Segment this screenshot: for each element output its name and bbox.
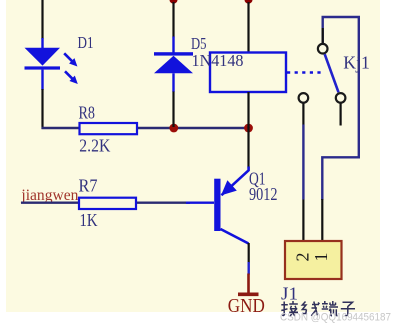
- transistor Q1: [214, 167, 248, 244]
- junction dot at D5 branch: [169, 124, 178, 133]
- switch common contact circle: [318, 44, 328, 54]
- label R8: [79, 103, 96, 123]
- ground: [238, 274, 259, 295]
- top edge junction stub of relay branch: [245, 0, 253, 4]
- stub below lower-right contact: [340, 104, 342, 126]
- wire base row: [21, 201, 214, 203]
- wire relay coil to junction: [247, 92, 249, 128]
- net label jiangwen: [20, 187, 78, 204]
- svg-text:jiangwen: jiangwen: [20, 187, 78, 204]
- resistor R8: [80, 123, 138, 134]
- pin number 1: [311, 253, 331, 262]
- char xian: [302, 302, 320, 316]
- dashed actuation link: [287, 71, 323, 73]
- wire top to diode D5: [172, 2, 174, 38]
- svg-text:D1: D1: [78, 33, 94, 52]
- svg-text:Kj1: Kj1: [343, 53, 370, 73]
- svg-text:J1: J1: [281, 283, 298, 303]
- label 9012: [249, 184, 278, 204]
- wire top to relay coil: [247, 2, 249, 53]
- label 1N4148: [192, 51, 244, 70]
- pin number 2: [293, 253, 313, 262]
- label terminal block (Chinese): [281, 301, 355, 316]
- label 1K: [80, 210, 98, 230]
- wire lower-left contact to connector pin 2: [302, 104, 304, 242]
- char zi: [341, 302, 355, 315]
- svg-text:2.2K: 2.2K: [79, 136, 110, 156]
- switch contact circle lower-left: [299, 93, 309, 103]
- svg-text:R8: R8: [79, 103, 96, 123]
- svg-text:1K: 1K: [80, 210, 98, 230]
- wire switch frame to connector pin 1: [321, 199, 323, 241]
- watermark: [280, 312, 391, 324]
- resistor R7: [79, 198, 136, 209]
- label J1: [281, 283, 298, 303]
- svg-text:9012: 9012: [249, 184, 278, 204]
- label 2.2K: [79, 136, 110, 156]
- label R7: [79, 176, 98, 196]
- svg-text:GND: GND: [228, 295, 265, 317]
- LED D1: [25, 38, 78, 90]
- wire horizontal net row y128: [42, 127, 251, 129]
- label Q1: [249, 169, 266, 189]
- relay coil Kj1: [210, 53, 286, 93]
- svg-text:R7: R7: [79, 176, 98, 196]
- char duan: [322, 301, 338, 316]
- top edge junction stub of D5 branch: [170, 0, 178, 4]
- svg-text:1N4148: 1N4148: [192, 51, 244, 70]
- wire diode D5 to junction: [172, 92, 174, 128]
- svg-text:1: 1: [311, 253, 331, 262]
- svg-text:CSDN @QQ1694456187: CSDN @QQ1694456187: [280, 312, 391, 324]
- label Kj1: [343, 53, 370, 73]
- wire emitter to ground: [248, 243, 250, 275]
- label GND: [228, 295, 265, 317]
- switch contact circle lower-right: [336, 93, 346, 103]
- wire top to LED D1: [41, 0, 43, 39]
- svg-text:2: 2: [293, 253, 313, 262]
- connector J1 terminal block: [285, 241, 342, 279]
- junction dot at relay branch: [244, 124, 253, 133]
- label D1: [78, 33, 94, 52]
- wire junction to transistor collector: [247, 127, 249, 168]
- switch arm: [325, 54, 339, 92]
- char jie: [281, 301, 298, 316]
- label D5: [191, 34, 207, 53]
- diode D5: [154, 37, 193, 93]
- switch frame wire (top bracket and right side): [322, 17, 359, 200]
- wire LED D1 to corner: [41, 89, 43, 129]
